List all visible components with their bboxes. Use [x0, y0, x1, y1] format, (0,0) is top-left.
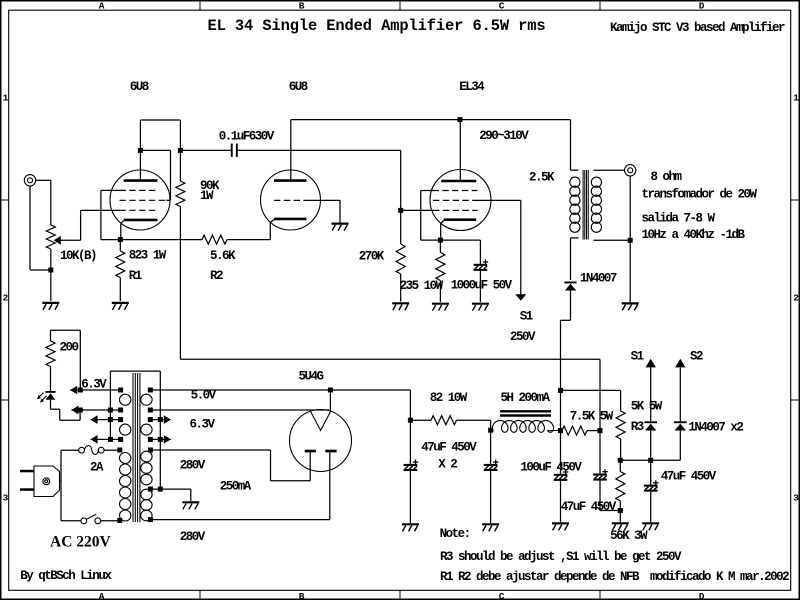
wire 6.3V no1 bottom row: [71, 409, 120, 411]
ground R1: [112, 303, 129, 310]
tube V1 plate: [124, 179, 158, 182]
svg-text:AC 220V: AC 220V: [50, 533, 112, 550]
wire LED to 6.3V row2: [51, 400, 81, 421]
arrow S1 screen: [515, 294, 526, 300]
node heater B: [78, 408, 83, 413]
svg-text:S1: S1: [631, 349, 644, 363]
svg-text:5U4G: 5U4G: [299, 369, 324, 383]
resistor R3 5K 5W: [616, 411, 625, 439]
wire capB ground: [490, 471, 492, 523]
wire B+ node down to 100uF: [599, 431, 601, 474]
output jack 8 ohm: [625, 165, 636, 176]
wire plug to legs: [60, 450, 81, 521]
wire cathode net to R2: [120, 239, 202, 241]
tube V1 grid g3 dashes: [120, 189, 158, 191]
LED D1: [37, 391, 56, 403]
pot wiper arrow: [54, 236, 61, 245]
svg-text:R3: R3: [631, 420, 644, 434]
wire 280V top to left plate: [150, 450, 310, 481]
node winding 5V top: [148, 388, 153, 393]
transformer T1 core: [133, 373, 140, 522]
wire CT to ground: [150, 489, 190, 501]
wire V2 grid to ground: [310, 200, 340, 222]
diode 1N4007 S2: [674, 421, 687, 430]
svg-text:235 10W: 235 10W: [400, 279, 444, 293]
node 5U4G filament: [328, 388, 333, 393]
node bracket row3: [108, 417, 113, 422]
node bracket CT: [158, 487, 163, 492]
wire filter cap branch: [560, 431, 562, 474]
tube V2 cathode: [274, 218, 307, 221]
wire rectifier output: [345, 390, 410, 420]
svg-text:EL 34 Single Ended Amplifier 6: EL 34 Single Ended Amplifier 6.5W rms: [208, 17, 546, 35]
wire B+ rail to primary: [571, 120, 579, 171]
T1 winding 5.0V coil: [141, 394, 152, 405]
svg-text:200: 200: [60, 340, 79, 354]
tube V1 plate lead: [139, 150, 141, 180]
wire 7.5K to B+ node: [587, 430, 600, 432]
svg-text:EL34: EL34: [459, 80, 485, 94]
svg-text:8 ohm: 8 ohm: [651, 170, 683, 184]
node B+ after choke: [598, 428, 603, 433]
T1 HT winding coils: [141, 451, 152, 521]
node V1 cathode junction: [118, 237, 123, 242]
arrow heater 6.3V D: [91, 435, 98, 444]
svg-text:250mA: 250mA: [220, 479, 252, 493]
node 82ohm left: [408, 418, 413, 423]
tube V3 cathode lead: [441, 221, 444, 241]
resistor 235 10W: [439, 240, 441, 252]
svg-text:Note:: Note:: [440, 527, 470, 541]
svg-text:10K(B): 10K(B): [60, 249, 96, 263]
ground center tap: [182, 502, 199, 509]
svg-text:S1: S1: [520, 310, 533, 324]
wire cathode node to bypass cap: [440, 240, 480, 264]
wire R1 to ground: [119, 278, 121, 302]
switch SW1: [81, 514, 101, 524]
node choke left: [488, 428, 493, 433]
capacitor 100uF 450V: [593, 469, 608, 481]
svg-text:82 10W: 82 10W: [430, 391, 468, 405]
wire S1 cap to ground: [650, 492, 652, 523]
wire 56K to ground: [619, 501, 621, 523]
wire 5.0V lower to filament: [150, 409, 329, 411]
wire secondary bottom: [593, 239, 630, 241]
ground 1000uF: [472, 304, 489, 311]
svg-text:5.0V: 5.0V: [191, 389, 217, 403]
node bracket right row4: [158, 437, 163, 442]
node plate net right: [178, 148, 183, 153]
svg-text:0.1uF630V: 0.1uF630V: [219, 130, 275, 144]
tube V2 plate lead to B+ rail: [290, 120, 292, 181]
node primary bottom: [117, 518, 122, 523]
svg-text:56K 3W: 56K 3W: [610, 529, 648, 543]
node V3 cathode: [438, 238, 443, 243]
svg-text:823 1W: 823 1W: [129, 248, 167, 262]
wire 82 to choke node: [457, 420, 491, 430]
choke core bars: [500, 411, 551, 415]
wire V3 g2 to screen supply S1: [478, 200, 521, 294]
ground 56K: [612, 523, 629, 530]
node S1 cap: [648, 458, 653, 463]
svg-text:1N4007: 1N4007: [580, 271, 617, 285]
svg-text:47uF 450V: 47uF 450V: [661, 470, 717, 484]
svg-text:transfomador de 20W: transfomador de 20W: [642, 188, 758, 202]
wire primary bottom: [571, 238, 579, 280]
wire 1000uF to ground: [479, 271, 481, 302]
T1 winding 6.3V right coil: [141, 424, 152, 435]
node plate net left: [138, 148, 143, 153]
wire V1 g3 to cathode net: [101, 190, 120, 239]
node winding 5V bottom: [148, 408, 153, 413]
tube V4 plate bars: [305, 450, 337, 453]
resistor 270K grid leak: [400, 210, 402, 244]
wire R2 to V2 cathode: [227, 219, 275, 239]
svg-text:6.3V: 6.3V: [190, 418, 216, 432]
svg-text:250V: 250V: [510, 330, 536, 344]
svg-text:R2: R2: [210, 269, 223, 283]
wire top node to R3: [561, 390, 621, 411]
tube V2 envelope: [261, 170, 321, 230]
T1 winding 6.3V no1: [120, 394, 131, 405]
ground secondary: [622, 303, 639, 310]
arrow heater 6.3V B: [71, 406, 78, 415]
wire filament node down: [329, 390, 331, 411]
AC plug P1: [20, 466, 60, 497]
arrow heater right D: [164, 435, 171, 444]
resistor R1 823 1W: [119, 240, 121, 251]
tube V1 cathode lead: [121, 221, 124, 240]
fuse 2A: [79, 446, 104, 455]
svg-text:10Hz a 40Khz -1dB: 10Hz a 40Khz -1dB: [642, 228, 746, 242]
svg-text:2.5K: 2.5K: [529, 170, 555, 184]
tube V3 plate: [441, 180, 476, 183]
wire 6.3V2 top right: [150, 419, 171, 421]
wire cap to EL34 grid node: [238, 150, 401, 210]
resistor 200: [46, 341, 55, 367]
choke 5H 200mA coil: [491, 421, 561, 433]
tube V2 grid dashes: [274, 199, 310, 201]
wire jack shield down: [30, 186, 51, 270]
node winding 6.3V1 top: [118, 388, 123, 393]
wire 280V bottom to right plate: [150, 452, 329, 519]
svg-text:5.6K: 5.6K: [210, 249, 236, 263]
svg-text:R3 should be adjust ,S1 will b: R3 should be adjust ,S1 will be get 250V: [440, 550, 682, 564]
svg-text:7.5K 5W: 7.5K 5W: [570, 409, 614, 423]
svg-text:R1 R2 debe ajustar depende de: R1 R2 debe ajustar depende de NFB modifi…: [440, 570, 789, 584]
output transformer T2 secondary coil: [591, 177, 601, 232]
node bracket right row3: [158, 417, 163, 422]
svg-text:270K: 270K: [359, 250, 385, 264]
node filter top: [558, 388, 563, 393]
svg-text:100uF 450V: 100uF 450V: [520, 461, 582, 475]
wire LED bracket: [51, 330, 81, 387]
svg-text:5H 200mA: 5H 200mA: [501, 391, 551, 405]
capacitor 47uF 450V input A: [409, 420, 411, 464]
node winding right 6.3V top: [148, 417, 153, 422]
svg-text:salida 7-8 W: salida 7-8 W: [642, 212, 716, 226]
ground capA: [402, 524, 419, 531]
resistor 82 10W: [410, 419, 431, 421]
ground V2 grid: [332, 224, 349, 231]
node winding right 6.3V bottom: [148, 437, 153, 442]
arrow heater 6.3V C: [91, 415, 98, 424]
node B+ rail at EL34 plate: [457, 117, 462, 122]
wire plate net to cap: [180, 149, 231, 151]
ground S1 cap: [642, 523, 659, 530]
capacitor 1000uF 50V: [474, 259, 489, 271]
wire capA ground: [409, 471, 411, 523]
tube V3 grid g2 dashes: [433, 199, 478, 201]
wire B+ rail top: [291, 119, 571, 121]
tube V1 cathode: [124, 219, 158, 222]
wire wiper to tube V1 grid g1: [60, 210, 120, 240]
resistor R2 5.6K: [202, 235, 227, 244]
wire 47uF to ground: [560, 481, 562, 522]
wire S1 node bus: [620, 459, 680, 461]
svg-text:2A: 2A: [90, 461, 104, 475]
svg-text:R1: R1: [129, 269, 142, 283]
ground pot: [42, 303, 59, 310]
wire S1 diode to node: [650, 431, 652, 461]
svg-text:1W: 1W: [200, 189, 214, 203]
svg-text:X 2: X 2: [438, 458, 457, 472]
ground capB: [482, 524, 499, 531]
wire V3 g3 to cathode net: [421, 191, 438, 241]
node pot bottom: [48, 268, 53, 273]
svg-text:280V: 280V: [180, 459, 206, 473]
input jack J1: [24, 175, 35, 186]
arrow heater right C: [164, 415, 171, 424]
capacitor 47uF 450V input B: [490, 430, 492, 464]
tube V3 grid g3 dashes: [433, 190, 478, 192]
ground 47uF filter: [552, 523, 569, 530]
wire pot bottom to ground node: [50, 249, 52, 301]
tube V3 cathode: [444, 218, 477, 221]
node EL34 grid g1: [398, 208, 403, 213]
wire jack down to secondary bottom: [629, 176, 631, 240]
arrow S2 supply: [675, 359, 685, 368]
output transformer T2 primary coil: [570, 177, 580, 232]
diode 1N4007: [564, 282, 576, 291]
svg-text:5K 5W: 5K 5W: [631, 400, 663, 414]
node secondary bottom: [628, 238, 633, 243]
T1 primary winding coils: [120, 453, 131, 522]
node HT top: [148, 448, 153, 453]
wire 6.3V no2 top row: [91, 419, 121, 421]
node HT bottom: [148, 517, 153, 522]
ground cathode R: [432, 304, 449, 311]
wire 6.3V no1 top row: [70, 389, 120, 391]
tube V4 filament V: [310, 411, 331, 431]
wire S1 arrow to diode: [650, 367, 652, 421]
capacitor 47uF 450V S1: [644, 480, 659, 492]
wire 270K to ground: [400, 274, 402, 302]
tube V1 grid g2 dashes: [120, 199, 167, 201]
arrow S1 supply: [646, 359, 656, 368]
tube V1 grid g2 stub to right: [166, 199, 170, 201]
arrow heater 6.3V A: [70, 386, 77, 395]
node HT center tap: [148, 487, 153, 492]
node winding 6.3V2 bottom: [118, 437, 123, 442]
tube V2 plate: [274, 179, 307, 182]
wire 200 to LED: [50, 367, 52, 392]
wire jack to pot top: [36, 180, 51, 225]
node 7.5K left: [558, 428, 563, 433]
svg-text:6U8: 6U8: [130, 80, 149, 94]
wire T1 common bracket: [110, 371, 160, 489]
node heater A: [78, 388, 83, 393]
wire B+ takeoff: [150, 389, 345, 391]
svg-text:6.3V: 6.3V: [81, 377, 107, 391]
wire secondary top to output jack: [593, 169, 624, 171]
wire diode down to filter node: [561, 291, 571, 391]
output transformer core: [583, 170, 588, 240]
node bracket row4: [108, 437, 113, 442]
svg-text:47uF 450V: 47uF 450V: [561, 500, 617, 514]
svg-text:1N4007 x2: 1N4007 x2: [688, 420, 743, 434]
node primary top: [117, 448, 122, 453]
T1 winding 6.3V no2 left: [120, 424, 131, 435]
capacitor 47uF 450V filter: [554, 469, 569, 481]
svg-text:6U8: 6U8: [289, 80, 308, 94]
wire 235 to ground: [439, 281, 441, 303]
svg-text:280V: 280V: [180, 530, 206, 544]
wire secondary to ground: [629, 240, 631, 302]
capacitor 0.1uF630V: [231, 144, 238, 157]
wire plate net to g2 strap: [140, 150, 170, 200]
wire R3 to S1 node: [620, 439, 622, 460]
wire filter node down: [560, 390, 562, 430]
wire fuse to primary: [104, 449, 120, 451]
potentiometer 10K(B): [46, 225, 55, 249]
resistor 7.5K 5W: [562, 426, 587, 435]
tube V3 grid g1 dashes: [433, 209, 478, 211]
wire S1 node to 47uF: [650, 460, 652, 484]
tube V1 grid g1 dashes: [120, 209, 158, 211]
node winding 6.3V1 bottom: [118, 408, 123, 413]
wire switch to primary: [101, 520, 120, 522]
svg-text:By qtBSch Linux: By qtBSch Linux: [20, 569, 112, 583]
svg-text:47uF 450V: 47uF 450V: [421, 441, 477, 455]
resistor 90K 1W: [179, 150, 181, 181]
svg-text:290~310V: 290~310V: [479, 129, 529, 143]
wire 100uF bottom to 56K bottom: [600, 481, 620, 511]
tube V1 envelope: [110, 170, 170, 230]
node bracket row2: [108, 408, 113, 413]
wire 6.3V no2 bottom row: [91, 438, 121, 440]
wire S2 diode to node: [679, 431, 681, 461]
wire 90K bottom to B+ feed line: [180, 207, 600, 431]
wire 6.3V2 bottom right: [150, 438, 171, 440]
tube V3 envelope: [430, 170, 491, 231]
wire g1 node to grid dashes: [401, 209, 433, 211]
tube V3 plate lead: [459, 120, 461, 181]
diode 1N4007 S1: [644, 421, 657, 430]
wire plate top loop: [140, 120, 180, 150]
node 56K bottom: [618, 508, 623, 513]
svg-text:Kamijo STC V3 based Amplifier: Kamijo STC V3 based Amplifier: [610, 21, 785, 35]
wire S2 arrow to diode: [679, 367, 681, 421]
svg-text:S2: S2: [690, 349, 703, 363]
ground 270K: [392, 303, 409, 310]
node winding 6.3V2 top: [118, 417, 123, 422]
node S1 supply: [618, 458, 623, 463]
tube V4 5U4G envelope: [290, 410, 352, 472]
resistor 56K 3W: [619, 460, 621, 471]
svg-text:1000uF 50V: 1000uF 50V: [451, 279, 513, 293]
